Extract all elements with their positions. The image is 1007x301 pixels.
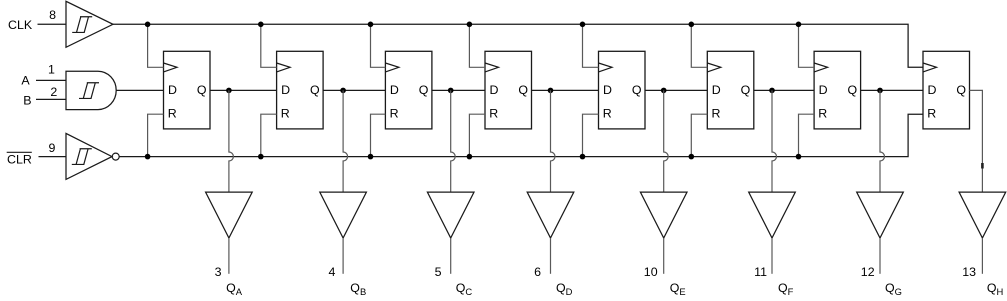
svg-text:3: 3 [215, 265, 222, 279]
svg-text:D: D [490, 83, 499, 97]
svg-text:10: 10 [644, 265, 658, 279]
svg-text:13: 13 [962, 265, 976, 279]
svg-text:9: 9 [48, 141, 55, 155]
svg-text:B: B [23, 93, 31, 107]
svg-text:12: 12 [861, 265, 875, 279]
svg-text:R: R [489, 107, 498, 121]
svg-text:6: 6 [534, 265, 541, 279]
svg-text:11: 11 [754, 265, 767, 279]
svg-text:A: A [21, 73, 30, 87]
svg-text:5: 5 [435, 265, 442, 279]
svg-text:R: R [603, 107, 612, 121]
svg-text:2: 2 [50, 85, 57, 99]
svg-text:D: D [819, 83, 828, 97]
svg-text:D: D [928, 83, 937, 97]
svg-text:Q: Q [632, 83, 642, 97]
svg-text:Q: Q [518, 83, 528, 97]
svg-text:CLK: CLK [8, 18, 33, 32]
svg-text:Q: Q [741, 83, 751, 97]
svg-text:R: R [927, 107, 936, 121]
svg-text:R: R [818, 107, 827, 121]
svg-text:Q: Q [847, 83, 857, 97]
svg-text:Q: Q [197, 83, 207, 97]
svg-text:R: R [281, 107, 290, 121]
svg-text:4: 4 [328, 265, 335, 279]
svg-text:Q: Q [956, 83, 966, 97]
svg-text:Q: Q [419, 83, 429, 97]
svg-text:CLR: CLR [7, 153, 32, 167]
svg-text:R: R [168, 107, 177, 121]
svg-text:D: D [712, 83, 721, 97]
svg-text:D: D [168, 83, 177, 97]
svg-text:8: 8 [49, 8, 56, 22]
svg-text:Q: Q [310, 83, 320, 97]
svg-text:R: R [712, 107, 721, 121]
svg-text:D: D [603, 83, 612, 97]
svg-text:D: D [390, 83, 399, 97]
svg-text:D: D [281, 83, 290, 97]
svg-text:R: R [390, 107, 399, 121]
svg-text:1: 1 [48, 63, 55, 77]
